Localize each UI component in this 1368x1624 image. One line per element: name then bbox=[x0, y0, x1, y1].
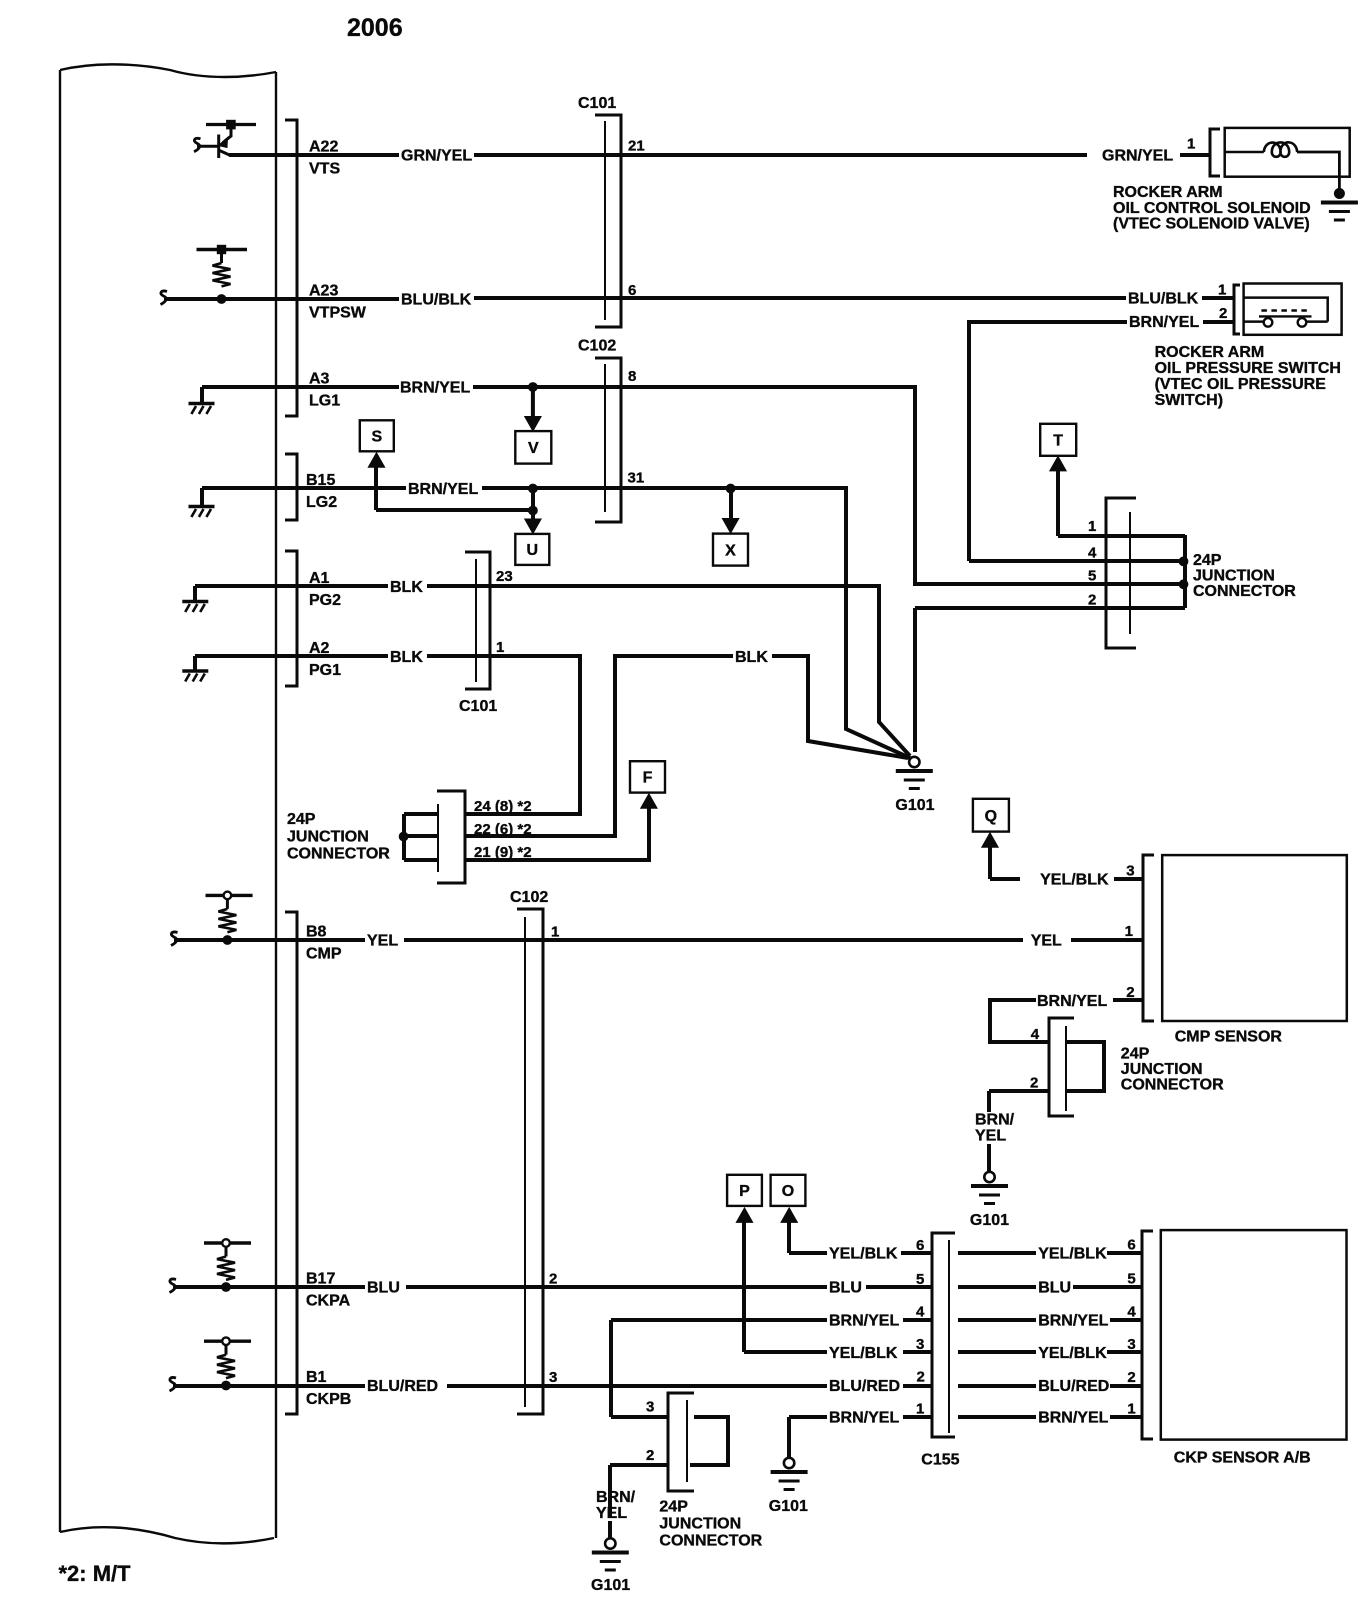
pressure switch internal contacts bbox=[1244, 298, 1328, 327]
wire junction pin 2 to left bbox=[915, 606, 1185, 610]
wire BRN/YEL from bottom junction pin 3 to C155 pin 4 bbox=[611, 1320, 827, 1417]
wire junction pin 2 down to G101 bbox=[913, 608, 917, 752]
connector C102 (A3/B15 pass-through) bbox=[595, 358, 621, 522]
svg-text:OIL CONTROL SOLENOID: OIL CONTROL SOLENOID bbox=[1113, 200, 1311, 217]
svg-text:CKPA: CKPA bbox=[306, 1293, 351, 1310]
svg-text:GRN/YEL: GRN/YEL bbox=[1102, 148, 1173, 165]
chassis ground at A2 bbox=[182, 671, 208, 682]
pull-up resistor at B17 bbox=[204, 1239, 251, 1291]
svg-text:1: 1 bbox=[1187, 136, 1195, 153]
connector C102 (B8/B17/B1 pass-through) bbox=[517, 909, 543, 1414]
curl at B17 wire end bbox=[170, 1279, 177, 1293]
box V bbox=[515, 431, 551, 464]
svg-text:2: 2 bbox=[646, 1447, 654, 1464]
svg-text:*2: M/T: *2: M/T bbox=[59, 1561, 132, 1586]
box U bbox=[515, 534, 549, 565]
svg-text:F: F bbox=[643, 770, 653, 787]
arrow T (to page T) bbox=[1058, 470, 1185, 536]
junction dot on A3 wire bbox=[529, 383, 538, 392]
svg-text:T: T bbox=[1053, 433, 1063, 450]
svg-text:G101: G101 bbox=[769, 1498, 808, 1515]
svg-text:21: 21 bbox=[628, 138, 645, 155]
svg-text:A2: A2 bbox=[309, 640, 330, 657]
svg-text:A1: A1 bbox=[309, 570, 330, 587]
wire BLK from junction pin 22 to G101 bbox=[465, 656, 733, 836]
svg-text:X: X bbox=[725, 542, 736, 559]
svg-text:1: 1 bbox=[1127, 1401, 1135, 1418]
junction dot on B15 wire bbox=[529, 484, 538, 493]
wire B15 inside ECM with chassis ground bbox=[202, 488, 406, 505]
chassis ground at B15 bbox=[189, 507, 215, 518]
svg-text:5: 5 bbox=[1127, 1271, 1135, 1288]
wire YEL/BLK stub to CMP pin 3 bbox=[1114, 877, 1143, 881]
svg-text:CONNECTOR: CONNECTOR bbox=[1121, 1076, 1224, 1093]
wire B17 inside ECM bbox=[173, 1285, 365, 1289]
svg-text:(VTEC OIL PRESSURE: (VTEC OIL PRESSURE bbox=[1155, 376, 1327, 393]
svg-text:24P: 24P bbox=[659, 1499, 688, 1516]
svg-text:A3: A3 bbox=[309, 371, 330, 388]
svg-text:JUNCTION: JUNCTION bbox=[659, 1516, 741, 1533]
svg-text:2: 2 bbox=[549, 1271, 557, 1288]
ECM terminal bracket B15 bbox=[285, 454, 297, 520]
svg-text:ROCKER ARM: ROCKER ARM bbox=[1155, 344, 1265, 361]
svg-text:P: P bbox=[739, 1183, 750, 1200]
junction right-side bus bbox=[1183, 535, 1187, 608]
svg-text:C102: C102 bbox=[510, 889, 548, 906]
svg-text:5: 5 bbox=[1088, 568, 1096, 585]
svg-text:3: 3 bbox=[646, 1399, 654, 1416]
wire YEL/BLK to C155 pin 3 bbox=[903, 1350, 932, 1354]
ECM terminal bracket A1-A2 bbox=[285, 551, 297, 686]
box X bbox=[713, 534, 748, 566]
svg-text:1: 1 bbox=[916, 1401, 924, 1418]
svg-text:23: 23 bbox=[496, 568, 513, 585]
svg-text:1: 1 bbox=[1088, 518, 1096, 535]
wire YEL stub to CMP pin 1 bbox=[1071, 938, 1143, 942]
svg-text:24P: 24P bbox=[1193, 552, 1222, 569]
svg-text:PG2: PG2 bbox=[309, 592, 341, 609]
svg-text:B15: B15 bbox=[306, 472, 335, 489]
svg-text:C102: C102 bbox=[578, 338, 616, 355]
svg-text:VTS: VTS bbox=[309, 161, 340, 178]
curl at A23 wire end bbox=[161, 291, 168, 305]
CMP sensor box bbox=[1162, 855, 1347, 1021]
svg-text:BLU/BLK: BLU/BLK bbox=[1128, 291, 1199, 308]
chassis ground at A3 bbox=[189, 404, 215, 415]
svg-text:BRN/: BRN/ bbox=[596, 1489, 636, 1506]
svg-text:LG2: LG2 bbox=[306, 494, 337, 511]
svg-text:CKP SENSOR A/B: CKP SENSOR A/B bbox=[1174, 1450, 1311, 1467]
wire B15 BRN/YEL through C102 pin 31 to G101 bbox=[482, 488, 910, 758]
24P junction connector (left) bbox=[437, 791, 465, 883]
pull-up resistor at B8 bbox=[206, 892, 253, 945]
wire to ground bbox=[987, 1144, 991, 1172]
wire BRN/YEL to C155 pin 4 bbox=[903, 1318, 932, 1322]
wire B8 YEL through C102 pin 1 to CMP sensor bbox=[404, 938, 1023, 942]
svg-text:YEL: YEL bbox=[596, 1505, 627, 1522]
svg-text:CONNECTOR: CONNECTOR bbox=[659, 1533, 762, 1550]
svg-text:B8: B8 bbox=[306, 924, 327, 941]
svg-text:BRN/YEL: BRN/YEL bbox=[1037, 993, 1107, 1010]
arrow S (to page S) bbox=[374, 466, 378, 510]
pin 3 wire to bottom junction bbox=[611, 1415, 668, 1419]
pin 2 wire from bottom junction to G101 bbox=[610, 1465, 668, 1518]
curl at transistor base lead bbox=[194, 138, 201, 152]
svg-text:BLK: BLK bbox=[390, 579, 423, 596]
svg-text:8: 8 bbox=[628, 368, 636, 385]
svg-text:SWITCH): SWITCH) bbox=[1155, 392, 1223, 409]
arrow V (to page V) bbox=[531, 389, 535, 418]
svg-text:24P: 24P bbox=[1121, 1046, 1150, 1063]
svg-text:VTPSW: VTPSW bbox=[309, 305, 367, 322]
svg-text:CONNECTOR: CONNECTOR bbox=[287, 846, 390, 863]
svg-text:3: 3 bbox=[916, 1336, 924, 1353]
junction dot for X tap bbox=[726, 484, 735, 493]
svg-text:BLU: BLU bbox=[1038, 1280, 1071, 1297]
wire A3 inside ECM with chassis ground bbox=[202, 387, 399, 402]
box O bbox=[771, 1175, 806, 1206]
wire A22 to ECM edge bbox=[229, 153, 399, 157]
svg-text:CKPB: CKPB bbox=[306, 1391, 351, 1408]
svg-text:BLU/RED: BLU/RED bbox=[829, 1378, 900, 1395]
wire A23 inside ECM bbox=[164, 297, 399, 301]
svg-text:BLU: BLU bbox=[829, 1280, 862, 1297]
wire junction pin 2 to G101 bbox=[989, 1091, 1049, 1112]
wire BLU to C155 bbox=[866, 1285, 932, 1289]
arrow Q (to page Q) bbox=[990, 847, 1020, 879]
svg-text:Q: Q bbox=[985, 808, 997, 825]
wire B17 BLU through C102 pin 2 to C155 bbox=[406, 1285, 827, 1289]
svg-text:JUNCTION: JUNCTION bbox=[1193, 568, 1275, 585]
junction dot on bus bbox=[399, 832, 408, 841]
box Q bbox=[973, 799, 1009, 832]
svg-text:C155: C155 bbox=[921, 1452, 959, 1469]
svg-text:B1: B1 bbox=[306, 1369, 327, 1386]
svg-text:CONNECTOR: CONNECTOR bbox=[1193, 583, 1296, 600]
wire BLU/RED C155 to CKP pin 2 bbox=[958, 1384, 1036, 1388]
svg-text:3: 3 bbox=[1126, 863, 1134, 880]
svg-text:C101: C101 bbox=[459, 698, 497, 715]
wire YEL/BLK to C155 pin 6 bbox=[901, 1251, 932, 1255]
24P junction connector (bottom) bbox=[668, 1393, 694, 1491]
wire B8 inside ECM bbox=[174, 938, 365, 942]
svg-text:G101: G101 bbox=[970, 1212, 1009, 1229]
rocker arm oil control solenoid box bbox=[1225, 128, 1350, 177]
bus wire joining junction pins bbox=[404, 814, 437, 860]
svg-text:BRN/YEL: BRN/YEL bbox=[1129, 314, 1199, 331]
svg-text:YEL: YEL bbox=[975, 1128, 1006, 1145]
wire B1 BLU/RED through C102 pin 3 to C155 bbox=[447, 1384, 827, 1388]
wire A1 inside ECM with chassis ground bbox=[195, 586, 388, 600]
branch to S and U taps bbox=[376, 488, 533, 510]
connector bracket at CKP sensor bbox=[1142, 1231, 1153, 1439]
chassis ground at A1 bbox=[182, 602, 208, 613]
svg-text:BLU/BLK: BLU/BLK bbox=[401, 292, 472, 309]
svg-text:BLU/RED: BLU/RED bbox=[367, 1378, 438, 1395]
pull-up resistor at A23 (inside ECM) bbox=[197, 245, 248, 303]
svg-text:BRN/YEL: BRN/YEL bbox=[829, 1410, 899, 1427]
svg-text:S: S bbox=[371, 429, 382, 446]
wire B1 inside ECM bbox=[173, 1384, 365, 1388]
svg-text:(VTEC SOLENOID VALVE): (VTEC SOLENOID VALVE) bbox=[1113, 216, 1310, 233]
ECM terminal bracket A22-A3 bbox=[285, 120, 297, 416]
svg-text:GRN/YEL: GRN/YEL bbox=[401, 148, 472, 165]
wire A22 GRN/YEL to solenoid bbox=[474, 153, 1087, 157]
wire junction pin 21 to F arrow bbox=[465, 808, 649, 860]
connector bracket at solenoid pin 1 bbox=[1210, 129, 1220, 176]
svg-text:2: 2 bbox=[1127, 1369, 1135, 1386]
wire to junction pin 4 bbox=[969, 559, 1183, 563]
arrow O (to page O) bbox=[789, 1222, 827, 1253]
arrow U (to page U) bbox=[531, 510, 535, 520]
svg-text:U: U bbox=[527, 542, 539, 559]
connector bracket at pressure switch bbox=[1234, 285, 1240, 334]
svg-text:BLK: BLK bbox=[735, 649, 768, 666]
svg-text:6: 6 bbox=[916, 1237, 924, 1254]
svg-text:24P: 24P bbox=[287, 811, 316, 828]
svg-text:V: V bbox=[528, 440, 539, 457]
rocker arm oil pressure switch box bbox=[1244, 284, 1342, 335]
wire BRN/YEL C155 to CKP pin 4 bbox=[958, 1318, 1036, 1322]
ground connection dot at solenoid bbox=[1334, 189, 1344, 199]
wire A2 BLK down to junction pin 24 bbox=[427, 656, 580, 814]
CKP sensor box bbox=[1161, 1230, 1347, 1440]
svg-text:G101: G101 bbox=[895, 797, 934, 814]
svg-text:2: 2 bbox=[1219, 305, 1227, 322]
wire A2 inside ECM with chassis ground bbox=[195, 656, 388, 670]
svg-text:PG1: PG1 bbox=[309, 662, 341, 679]
svg-text:CMP: CMP bbox=[306, 946, 342, 963]
svg-text:BLU/RED: BLU/RED bbox=[1038, 1378, 1109, 1395]
wire A3 BRN/YEL through C102 pin 8 down to junction pin 5 bbox=[473, 387, 1183, 584]
svg-text:YEL/BLK: YEL/BLK bbox=[829, 1345, 898, 1362]
box F bbox=[630, 761, 665, 792]
svg-text:BRN/YEL: BRN/YEL bbox=[1038, 1313, 1108, 1330]
svg-text:2: 2 bbox=[917, 1369, 925, 1386]
svg-text:YEL/BLK: YEL/BLK bbox=[1038, 1246, 1107, 1263]
svg-text:LG1: LG1 bbox=[309, 393, 340, 410]
svg-text:5: 5 bbox=[916, 1271, 924, 1288]
svg-text:YEL: YEL bbox=[1031, 933, 1062, 950]
svg-text:BRN/YEL: BRN/YEL bbox=[1038, 1410, 1108, 1427]
24P junction connector (right) bbox=[1106, 498, 1136, 648]
wire BRN/YEL from CMP pin 2 down to junction pin 4 bbox=[990, 1000, 1049, 1042]
transistor VTS driver (inside ECM) bbox=[197, 120, 256, 158]
svg-text:3: 3 bbox=[549, 1369, 557, 1386]
wire BRN/YEL C155 to CKP pin 1 bbox=[958, 1415, 1036, 1419]
arrow F (to page F) bbox=[641, 794, 657, 809]
wire BRN/YEL from G101 to C155 pin 1 bbox=[789, 1417, 827, 1458]
svg-text:31: 31 bbox=[628, 470, 645, 487]
wire YEL/BLK C155 to CKP pin 3 bbox=[958, 1350, 1036, 1354]
wire BRN/YEL from switch pin 2 down to junction pin 4 bbox=[969, 322, 1234, 561]
ground G101 (bottom left) bbox=[592, 1538, 629, 1570]
svg-text:A22: A22 bbox=[309, 139, 338, 156]
svg-text:BRN/YEL: BRN/YEL bbox=[829, 1313, 899, 1330]
connector C101 (A1/A2 pass-through) bbox=[465, 552, 490, 689]
svg-text:24 (8) *2: 24 (8) *2 bbox=[474, 798, 532, 815]
bus junction dots bbox=[1179, 557, 1188, 566]
box P bbox=[727, 1175, 762, 1206]
svg-text:1: 1 bbox=[1218, 282, 1226, 299]
svg-text:22 (6) *2: 22 (6) *2 bbox=[474, 821, 532, 838]
curl at B8 wire end bbox=[171, 932, 178, 946]
svg-text:6: 6 bbox=[1127, 1237, 1135, 1254]
ground G101 (CMP) bbox=[971, 1172, 1008, 1204]
svg-text:1: 1 bbox=[551, 924, 559, 941]
svg-text:2: 2 bbox=[1088, 592, 1096, 609]
wire BLU C155 to CKP pin 5 bbox=[958, 1285, 1036, 1289]
svg-text:BLK: BLK bbox=[390, 649, 423, 666]
svg-text:4: 4 bbox=[1031, 1026, 1040, 1043]
svg-text:OIL PRESSURE SWITCH: OIL PRESSURE SWITCH bbox=[1155, 360, 1341, 377]
junction loop pins 4-2 bbox=[1066, 1042, 1104, 1091]
svg-text:C101: C101 bbox=[578, 95, 616, 112]
svg-text:4: 4 bbox=[1127, 1304, 1136, 1321]
ECM terminal bracket B8-B17-B1 bbox=[285, 912, 297, 1414]
svg-text:2006: 2006 bbox=[347, 14, 403, 42]
arrow P (to page P) bbox=[744, 1222, 827, 1352]
wire BLU/RED to C155 bbox=[903, 1384, 932, 1388]
svg-text:O: O bbox=[782, 1183, 794, 1200]
svg-text:1: 1 bbox=[1125, 923, 1133, 940]
ECM/PCM outline (torn box) bbox=[60, 64, 276, 1543]
24P junction connector (CMP) bbox=[1049, 1018, 1074, 1116]
arrow X (to page X) bbox=[729, 490, 733, 518]
svg-text:2: 2 bbox=[1126, 984, 1134, 1001]
curl at B1 wire end bbox=[170, 1377, 177, 1391]
pull-up resistor at B1 bbox=[204, 1337, 251, 1390]
wire YEL/BLK C155 to CKP pin 6 bbox=[958, 1251, 1036, 1255]
ground G101 (middle) bbox=[896, 757, 933, 789]
svg-text:CMP SENSOR: CMP SENSOR bbox=[1175, 1029, 1283, 1046]
box T bbox=[1040, 424, 1076, 456]
wire BLK continues to G101 bbox=[772, 656, 908, 758]
svg-text:G101: G101 bbox=[591, 1577, 630, 1594]
ground symbol at solenoid bbox=[1321, 203, 1358, 221]
svg-text:JUNCTION: JUNCTION bbox=[287, 828, 369, 845]
junction loop pins 3-2 bbox=[690, 1417, 728, 1465]
svg-text:3: 3 bbox=[1127, 1336, 1135, 1353]
connector C101 (A22/A23 pass-through) bbox=[595, 115, 621, 327]
svg-text:A23: A23 bbox=[309, 283, 338, 300]
svg-text:2: 2 bbox=[1030, 1075, 1038, 1092]
svg-text:YEL: YEL bbox=[367, 933, 398, 950]
ground G101 (right of bottom junction) bbox=[771, 1458, 808, 1490]
wire BRN/YEL to C155 pin 1 bbox=[903, 1415, 932, 1419]
svg-text:ROCKER ARM: ROCKER ARM bbox=[1113, 184, 1223, 201]
wire BRN/YEL stub to CMP pin 2 bbox=[1113, 998, 1143, 1002]
connector C155 bbox=[932, 1233, 955, 1437]
svg-text:YEL/BLK: YEL/BLK bbox=[1038, 1345, 1107, 1362]
svg-text:YEL/BLK: YEL/BLK bbox=[829, 1246, 898, 1263]
wire to ground (bottom) bbox=[608, 1521, 612, 1538]
svg-text:1: 1 bbox=[496, 639, 504, 656]
connector bracket at CMP sensor bbox=[1143, 855, 1154, 1021]
wire BLU/BLK stub to switch pin 1 bbox=[1202, 296, 1235, 300]
box S bbox=[360, 420, 394, 451]
wire A23 BLU/BLK to pressure switch bbox=[474, 296, 1126, 300]
solenoid coil L1 bbox=[1225, 142, 1340, 191]
wire GRN/YEL stub to solenoid pin 1 bbox=[1180, 153, 1210, 157]
svg-text:BRN/YEL: BRN/YEL bbox=[400, 380, 470, 397]
wire A1 BLK through C101 pin 23 to G101 bbox=[427, 586, 910, 756]
svg-text:YEL/BLK: YEL/BLK bbox=[1040, 872, 1109, 889]
svg-text:BRN/: BRN/ bbox=[975, 1112, 1015, 1129]
svg-text:4: 4 bbox=[1088, 545, 1097, 562]
svg-text:BRN/YEL: BRN/YEL bbox=[408, 481, 478, 498]
svg-text:4: 4 bbox=[916, 1304, 925, 1321]
svg-text:B17: B17 bbox=[306, 1271, 335, 1288]
svg-text:BLU: BLU bbox=[367, 1280, 400, 1297]
